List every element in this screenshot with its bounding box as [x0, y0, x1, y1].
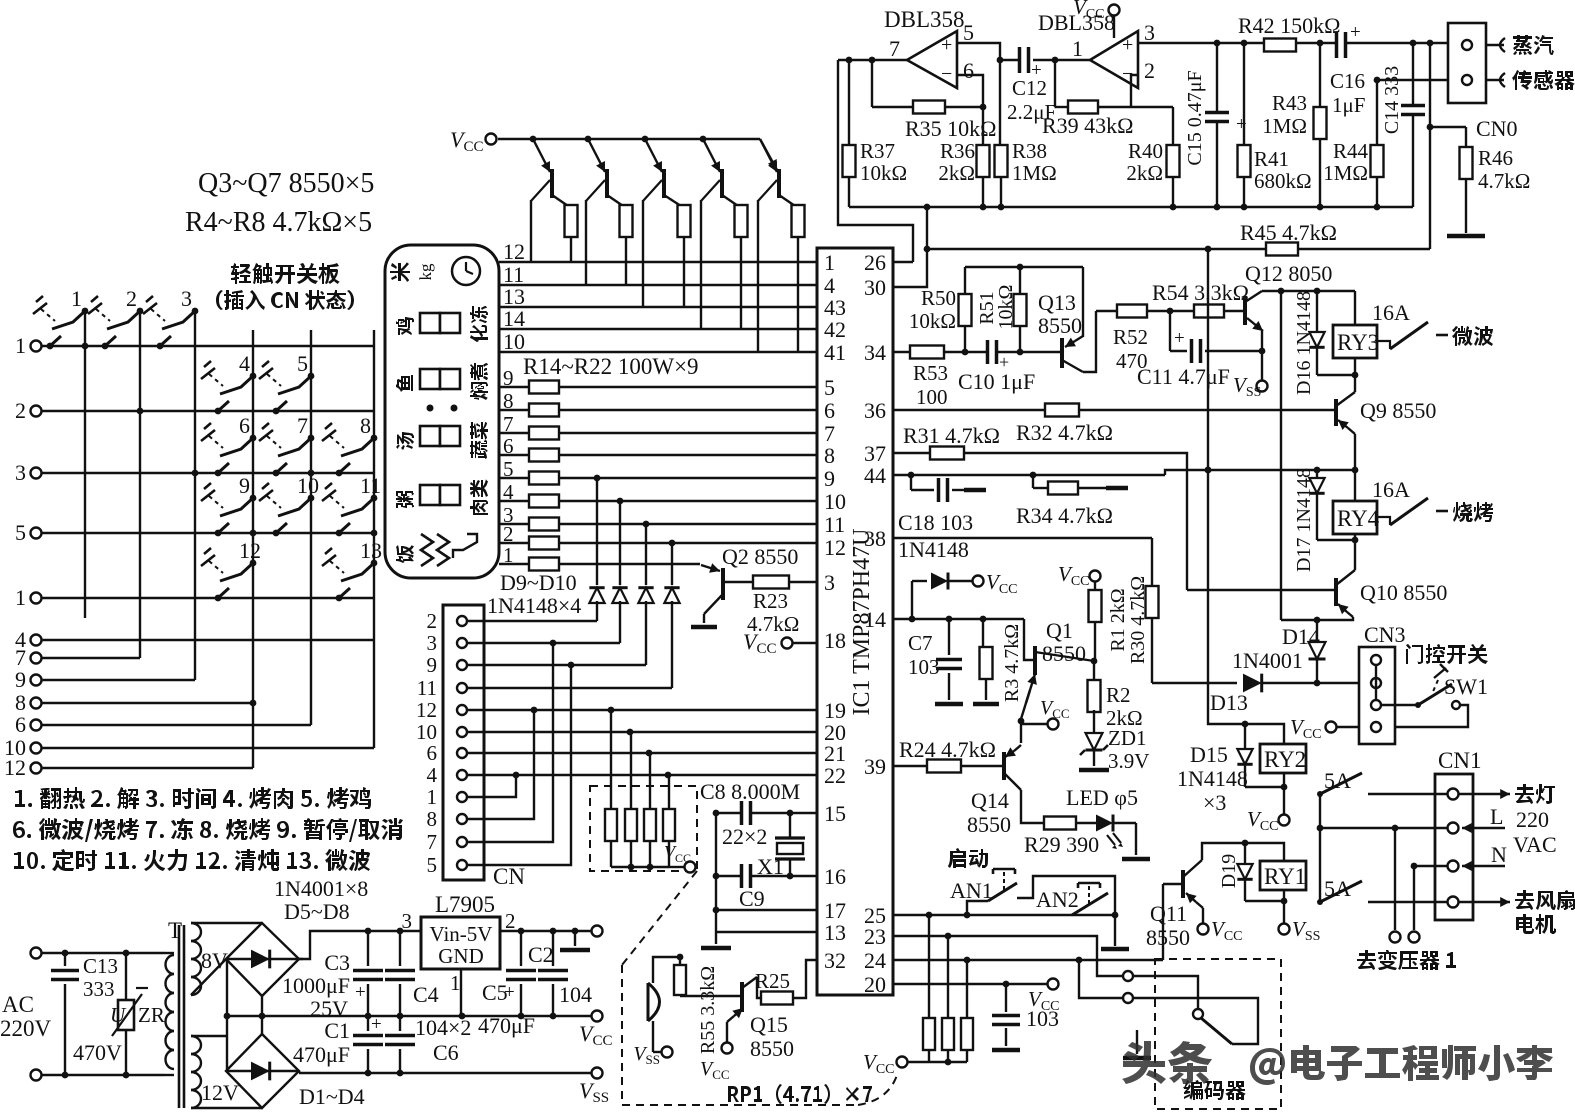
resistor R19 [499, 500, 817, 502]
svg-text:38: 38 [864, 526, 886, 551]
svg-text:+: + [1350, 22, 1361, 43]
svg-text:1000μF: 1000μF [282, 973, 350, 998]
svg-text:220V: 220V [0, 1016, 52, 1041]
svg-text:C2: C2 [528, 942, 554, 967]
svg-text:11: 11 [824, 512, 845, 537]
svg-text:R31 4.7kΩ: R31 4.7kΩ [903, 423, 1000, 448]
svg-text:1: 1 [71, 286, 82, 311]
svg-text:Q10 8550: Q10 8550 [1360, 580, 1447, 605]
svg-text:CN3: CN3 [1364, 622, 1406, 647]
svg-text:3: 3 [427, 631, 438, 655]
label soup [396, 432, 414, 450]
capacitor C10 [987, 340, 998, 364]
svg-text:kg: kg [416, 263, 435, 281]
svg-text:R25: R25 [755, 969, 790, 993]
encoder ground [1136, 1030, 1138, 1054]
key switch 13 [371, 560, 378, 567]
transistor Q6 [700, 136, 707, 143]
resistor pack RP1 part2 [928, 915, 930, 1018]
icon weight-kg [390, 262, 410, 282]
svg-text:×3: ×3 [1203, 790, 1226, 815]
svg-text:R34 4.7kΩ: R34 4.7kΩ [1016, 503, 1113, 528]
key switch 1 [82, 308, 89, 315]
svg-text:470μF: 470μF [293, 1042, 350, 1067]
capacitor C1 [367, 1016, 369, 1031]
diode D19 [1244, 843, 1246, 864]
svg-text:L7905: L7905 [435, 892, 495, 917]
resistor R15 [499, 409, 817, 411]
svg-text:GND: GND [438, 944, 484, 968]
label steam [1513, 35, 1554, 55]
wire pin44 row relay RY4 [893, 474, 1165, 476]
svg-text:2kΩ: 2kΩ [938, 161, 975, 185]
svg-text:Q1: Q1 [1046, 618, 1073, 643]
svg-text:13: 13 [824, 920, 846, 945]
switch SW1 [1382, 704, 1418, 706]
svg-text:2: 2 [1144, 58, 1155, 83]
dashed outline buzzer [622, 871, 697, 965]
svg-text:1: 1 [15, 585, 26, 610]
resistor R8 [797, 206, 799, 208]
wire pin26 [893, 261, 913, 263]
resistor R17 [499, 454, 817, 456]
svg-text:6: 6 [824, 398, 835, 423]
relay supply wire [1262, 290, 1355, 292]
svg-text:1: 1 [450, 971, 461, 995]
segment pair 3 [420, 426, 440, 446]
svg-text:11: 11 [360, 473, 381, 498]
segment pair 2 [420, 369, 440, 389]
CN pin1 jog [468, 775, 516, 797]
svg-text:Q2 8550: Q2 8550 [722, 544, 798, 569]
svg-text:16: 16 [824, 864, 846, 889]
svg-text:1: 1 [1072, 36, 1083, 61]
key switch 8 [371, 435, 378, 442]
varistor ZR [125, 953, 127, 1000]
wire rail end [760, 139, 777, 170]
capacitor 103 bypass [1005, 984, 1007, 1012]
svg-text:R53: R53 [913, 361, 948, 385]
svg-text:1MΩ: 1MΩ [1323, 161, 1368, 185]
Q11 base wire [1163, 883, 1183, 885]
svg-text:680kΩ: 680kΩ [1254, 169, 1312, 193]
svg-text:N: N [1491, 842, 1507, 867]
svg-text:5: 5 [297, 351, 308, 376]
svg-text:4: 4 [427, 763, 438, 787]
keypad output rows [31, 635, 42, 646]
connector CN0 sensor [1448, 23, 1486, 103]
resistor R42 [1264, 39, 1296, 52]
svg-text:42: 42 [824, 317, 846, 342]
svg-text:CN1: CN1 [1438, 748, 1481, 773]
svg-text:8V: 8V [201, 948, 228, 973]
dashed box RP1 main [590, 786, 697, 871]
svg-text:CN0: CN0 [1476, 116, 1518, 141]
svg-text:Q3~Q7 8550×5: Q3~Q7 8550×5 [198, 168, 374, 199]
svg-text:C1: C1 [324, 1018, 350, 1043]
resistor R54 [1170, 310, 1194, 312]
Q10 base riser [1187, 589, 1336, 591]
svg-text:220: 220 [1516, 807, 1549, 832]
svg-text:2kΩ: 2kΩ [1126, 161, 1163, 185]
wire pin37 row [893, 453, 1187, 590]
svg-text:R42 150kΩ: R42 150kΩ [1238, 13, 1341, 38]
svg-text:8: 8 [824, 443, 835, 468]
transistor Q3 [530, 136, 537, 143]
label vegetable [470, 422, 488, 459]
svg-text:+: + [371, 1014, 382, 1035]
svg-text:7: 7 [297, 413, 308, 438]
svg-text:13: 13 [360, 538, 382, 563]
Vcc RY2 [1279, 815, 1290, 826]
capacitor C18 [910, 475, 912, 490]
resistor R7 [740, 206, 742, 208]
svg-text:1N4001×8: 1N4001×8 [274, 876, 368, 901]
wire base drop [586, 180, 605, 201]
svg-text:12: 12 [4, 755, 26, 780]
svg-text:8550: 8550 [750, 1036, 794, 1061]
bridge rectifier D5-D8 [226, 923, 299, 996]
svg-text:R30 4.7kΩ: R30 4.7kΩ [1127, 576, 1149, 664]
resistor R55 [679, 957, 681, 965]
svg-text:18: 18 [824, 628, 846, 653]
svg-text:D17 1N4148: D17 1N4148 [1293, 468, 1315, 572]
transformer secondary 8V [191, 923, 201, 941]
display panel box [385, 245, 499, 578]
svg-text:C16: C16 [1330, 69, 1365, 93]
diode D15 [1244, 724, 1246, 749]
svg-text:4: 4 [503, 480, 514, 504]
svg-text:20: 20 [864, 972, 886, 997]
resistor pack RP1 part1 [610, 710, 612, 809]
svg-text:6: 6 [15, 712, 26, 737]
svg-text:3: 3 [402, 909, 413, 933]
resistor R46 [1465, 127, 1467, 148]
svg-text:SW1: SW1 [1444, 674, 1488, 699]
svg-text:8: 8 [360, 413, 371, 438]
left riser xtal [715, 813, 717, 932]
wire pin13 row [716, 931, 817, 933]
resistor R3 [982, 619, 984, 648]
N line [1414, 865, 1447, 867]
Q11 base riser [1162, 884, 1164, 960]
svg-text:3: 3 [1144, 20, 1155, 45]
svg-text:9: 9 [239, 473, 250, 498]
wire pin14 row [893, 618, 1024, 620]
svg-text:10: 10 [503, 329, 525, 354]
svg-text:Q13: Q13 [1038, 290, 1076, 315]
Q15 collector [742, 977, 757, 988]
relay RY2 [1260, 744, 1306, 773]
relay RY1 [1260, 861, 1306, 890]
diode D13 [1243, 674, 1262, 693]
key switch 10 [308, 495, 315, 502]
svg-text:+: + [355, 982, 366, 1003]
segment pair 4 [420, 485, 440, 505]
svg-text:R29 390: R29 390 [1024, 832, 1099, 857]
capacitor C14 [1412, 43, 1414, 207]
svg-text:D13: D13 [1210, 690, 1248, 715]
svg-text:103: 103 [1026, 1006, 1059, 1031]
svg-text:23: 23 [864, 924, 886, 949]
svg-text:1: 1 [503, 543, 514, 567]
wire base drop [758, 180, 777, 201]
svg-text:C10 1μF: C10 1μF [958, 369, 1035, 394]
op-amp U1a wires [838, 59, 907, 61]
label fish [396, 375, 413, 392]
diode D16 [1316, 291, 1318, 332]
LED ground [1135, 823, 1137, 855]
svg-text:−: − [941, 63, 952, 85]
keypad row lines [42, 345, 374, 347]
IC1 TMP87PH47U [817, 248, 893, 995]
segment pair 1 [420, 313, 440, 333]
svg-text:22×2: 22×2 [722, 824, 767, 849]
resistor R6 [683, 206, 685, 208]
svg-text:1MΩ: 1MΩ [1012, 161, 1057, 185]
capacitor C4 [399, 931, 401, 966]
svg-text:R52: R52 [1113, 325, 1148, 349]
svg-text:RY3: RY3 [1337, 330, 1379, 355]
label grill [1453, 502, 1493, 522]
svg-text:R45 4.7kΩ: R45 4.7kΩ [1240, 220, 1337, 245]
encoder input terminals [1123, 971, 1133, 981]
Vcc Q11 emitter [1202, 908, 1204, 923]
resistor R35 [871, 60, 873, 107]
svg-text:12: 12 [416, 698, 437, 722]
svg-text:39: 39 [864, 754, 886, 779]
svg-text:30: 30 [864, 275, 886, 300]
wire pin15 row [716, 812, 817, 814]
transistor Q4 [585, 136, 592, 143]
fan motor output [1459, 901, 1510, 903]
svg-text:CN: CN [493, 864, 525, 889]
label rice [396, 545, 414, 563]
Vcc terminal [592, 1011, 603, 1022]
transformer outputs [1394, 828, 1396, 930]
SW1 return wire [1395, 705, 1468, 727]
svg-text:7: 7 [889, 36, 900, 61]
capacitor C7 [948, 619, 950, 655]
icon defrost wave [453, 534, 477, 558]
svg-text:9: 9 [503, 366, 514, 390]
key switch 2 [137, 308, 144, 315]
svg-text:R55 3.3kΩ: R55 3.3kΩ [697, 966, 719, 1054]
resistor R40 [1131, 106, 1173, 108]
label microwave [1452, 326, 1493, 346]
label chicken [396, 317, 414, 335]
svg-text:3: 3 [824, 570, 835, 595]
resistor R52 [1096, 310, 1117, 312]
svg-text:1: 1 [427, 785, 438, 809]
buzzer top wire [653, 957, 680, 983]
AN loop ground [1114, 915, 1116, 946]
svg-text:C12: C12 [1012, 76, 1047, 100]
key switch 4 [250, 373, 257, 380]
LED [1076, 822, 1097, 824]
Vss RY1 [1279, 924, 1290, 935]
capacitor C8 [741, 801, 752, 825]
power rail Vcc to Q3-Q7 [486, 134, 497, 145]
Q10 emitter wire [1317, 617, 1353, 620]
resistor R22 [499, 563, 700, 565]
svg-text:8550: 8550 [1146, 925, 1190, 950]
resistor R41 [1243, 43, 1245, 146]
svg-text:Vin-5V: Vin-5V [430, 922, 493, 946]
wire pin38 to D13 [893, 537, 1152, 539]
svg-text:AN2: AN2 [1036, 887, 1079, 912]
svg-text:5: 5 [15, 520, 26, 545]
svg-text:+: + [1122, 34, 1133, 56]
op-amp U1b DBL358 [1090, 31, 1138, 88]
Q11 collector to RY1 [1202, 843, 1284, 861]
diode 1N4148 to Vcc [911, 581, 913, 619]
svg-text:DBL358: DBL358 [884, 7, 965, 32]
encoder dashed box [1155, 959, 1281, 1109]
label encoder [1183, 1080, 1246, 1100]
svg-text:11: 11 [417, 676, 437, 700]
resistor R16 [499, 432, 817, 434]
svg-text:U: U [110, 1003, 127, 1027]
svg-text:8550: 8550 [967, 812, 1011, 837]
svg-text:D15: D15 [1190, 742, 1228, 767]
capacitor C13 [64, 953, 66, 966]
svg-text:+: + [941, 34, 952, 56]
legend text [15, 787, 371, 809]
wire pin36 to Q9 base [893, 409, 1336, 411]
label porridge [396, 491, 414, 508]
svg-text:R1 2kΩ: R1 2kΩ [1107, 588, 1129, 651]
icon heater zigzag [421, 534, 449, 566]
svg-text:6: 6 [503, 434, 514, 458]
svg-text:R4~R8 4.7kΩ×5: R4~R8 4.7kΩ×5 [185, 207, 372, 238]
svg-text:D19: D19 [1218, 854, 1240, 888]
transistor Q7 [777, 169, 781, 198]
svg-text:10kΩ: 10kΩ [995, 285, 1017, 330]
resistor R39 [1054, 60, 1056, 107]
key switch 5 [308, 373, 315, 380]
diode D17 [1316, 470, 1318, 478]
svg-text:1MΩ: 1MΩ [1262, 114, 1307, 138]
svg-text:6: 6 [963, 58, 974, 83]
svg-text:D9~D10: D9~D10 [500, 570, 577, 595]
key switch 9 [250, 495, 257, 502]
svg-text:C15 0.47μF: C15 0.47μF [1184, 70, 1206, 165]
wire pin30 riser [893, 207, 927, 287]
Vcc terminal pin20 [1048, 979, 1059, 990]
svg-text:C9: C9 [739, 886, 765, 911]
capacitor C3 [367, 931, 369, 966]
wire pin15-16 from left riser [715, 812, 717, 814]
svg-text:C3: C3 [324, 950, 350, 975]
svg-text:8: 8 [503, 389, 514, 413]
svg-text:R38: R38 [1012, 139, 1047, 163]
op-amp U1a DBL358 [907, 31, 957, 88]
transformer secondary 12V [191, 1036, 201, 1054]
svg-text:R39 43kΩ: R39 43kΩ [1042, 113, 1134, 138]
resistor R1 [1090, 571, 1101, 582]
crystal X1 [789, 813, 791, 838]
svg-text:22: 22 [824, 763, 846, 788]
Q13 collector riser [1083, 311, 1096, 372]
resistor R37 [848, 60, 850, 145]
L line [1320, 827, 1447, 829]
wire pin34 row [893, 351, 1060, 353]
svg-text:R43: R43 [1272, 91, 1307, 115]
svg-text:Q12 8050: Q12 8050 [1245, 261, 1332, 286]
svg-text:LED φ5: LED φ5 [1066, 785, 1138, 810]
capacitor C2 [552, 931, 554, 966]
svg-text:+: + [1174, 328, 1185, 349]
encoder switch [1193, 1009, 1203, 1019]
Vss Q12 [1257, 381, 1268, 392]
transistor Q5 [642, 136, 649, 143]
svg-text:2: 2 [126, 286, 137, 311]
svg-text:16A: 16A [1372, 477, 1410, 502]
connector CN [443, 605, 484, 880]
transistor Q15 [680, 995, 742, 997]
label sensor [1512, 70, 1575, 90]
svg-text:15: 15 [824, 801, 846, 826]
svg-text:2: 2 [427, 609, 438, 633]
svg-text:R41: R41 [1254, 147, 1289, 171]
svg-text:26: 26 [864, 250, 886, 275]
svg-text:R36: R36 [940, 139, 975, 163]
resistor R53 [910, 346, 944, 359]
capacitor C16 [1336, 32, 1347, 58]
resistor R38 [999, 60, 1001, 145]
svg-text:5: 5 [963, 20, 974, 45]
resistor R4 [570, 206, 572, 208]
svg-text:4.7kΩ: 4.7kΩ [1478, 169, 1530, 193]
svg-text:R24 4.7kΩ: R24 4.7kΩ [899, 737, 996, 762]
svg-text:44: 44 [864, 463, 886, 488]
svg-text:C8 8.000M: C8 8.000M [700, 779, 800, 804]
svg-text:1N4148: 1N4148 [1177, 766, 1248, 791]
svg-text:32: 32 [824, 948, 846, 973]
svg-text:RY1: RY1 [1264, 864, 1306, 889]
wire pin24 row [893, 959, 1163, 961]
svg-text:5: 5 [824, 375, 835, 400]
svg-text:AN1: AN1 [950, 878, 993, 903]
bridge rectifier D1-D4 [226, 1034, 299, 1108]
AN1 loop wire [1017, 876, 1115, 915]
label door switch [1406, 644, 1488, 664]
transformer primary [165, 952, 174, 954]
encoder feed lower [1079, 960, 1122, 998]
svg-text:12: 12 [824, 535, 846, 560]
wire pin3 row [1138, 42, 1448, 44]
resistor R51 [965, 266, 1083, 268]
AC terminals [31, 948, 42, 959]
svg-text:9: 9 [15, 667, 26, 692]
capacitor C12 [1019, 47, 1030, 73]
resistor R2 [1093, 661, 1095, 682]
capacitor C9 [741, 864, 752, 888]
label stew [470, 363, 488, 400]
svg-text:C11 4.7μF: C11 4.7μF [1137, 364, 1230, 389]
resistor R44 [1376, 80, 1378, 146]
capacitor C6 [399, 1016, 401, 1031]
svg-text:AC: AC [2, 992, 34, 1017]
svg-text:R23: R23 [753, 589, 788, 613]
svg-text:104×2: 104×2 [415, 1015, 471, 1040]
svg-text:Q14: Q14 [971, 788, 1009, 813]
diode D9-1 [619, 501, 621, 585]
resistor R23 [723, 581, 817, 583]
junction dots keypad [82, 343, 89, 350]
svg-text:10kΩ: 10kΩ [909, 309, 956, 333]
